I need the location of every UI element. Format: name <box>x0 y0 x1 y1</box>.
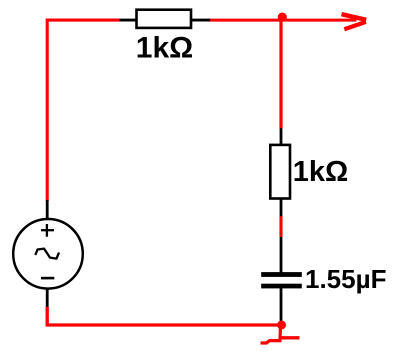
svg-text:1.55µF: 1.55µF <box>305 264 386 294</box>
wire: R2 top black lead <box>280 128 283 146</box>
node: output arrow head (hand drawn) <box>342 14 367 20</box>
wire: right branch red (junction down to R2) <box>279 18 282 129</box>
voltage source V1 bottom black lead <box>46 288 49 308</box>
voltage source V1 top black lead <box>46 200 49 220</box>
V1 minus sign <box>41 277 54 280</box>
wire: R1 left black lead <box>120 19 138 22</box>
capacitor C1 bottom plate <box>261 284 302 289</box>
svg-text:1kΩ: 1kΩ <box>136 31 193 64</box>
ground (hand drawn scribble) <box>278 327 282 339</box>
V1 sine symbol <box>35 249 59 259</box>
V1 plus sign <box>46 224 48 237</box>
wire: top-right red to arrow <box>210 19 356 22</box>
voltage source V1 (AC, circle) <box>13 219 83 289</box>
node: bottom junction dot <box>277 321 286 330</box>
wire: red segment between R2 and C1 <box>279 216 282 237</box>
resistor R1 (top, 1k ohm) <box>137 10 192 28</box>
wire: R2 bottom black lead <box>280 198 283 217</box>
wire: top-left red (left corner up and across to R1) <box>47 20 119 201</box>
wire: R1 right black lead <box>190 19 211 22</box>
wire: C1 bottom black lead <box>280 288 283 323</box>
wire: bottom red (source down and across to junction) <box>47 307 281 325</box>
wire: black lead into C1 <box>280 237 283 273</box>
resistor R2 (right, 1k ohm) <box>270 145 290 199</box>
capacitor C1 top plate <box>261 272 302 277</box>
svg-text:1kΩ: 1kΩ <box>293 156 349 188</box>
node: top junction dot <box>278 13 287 22</box>
